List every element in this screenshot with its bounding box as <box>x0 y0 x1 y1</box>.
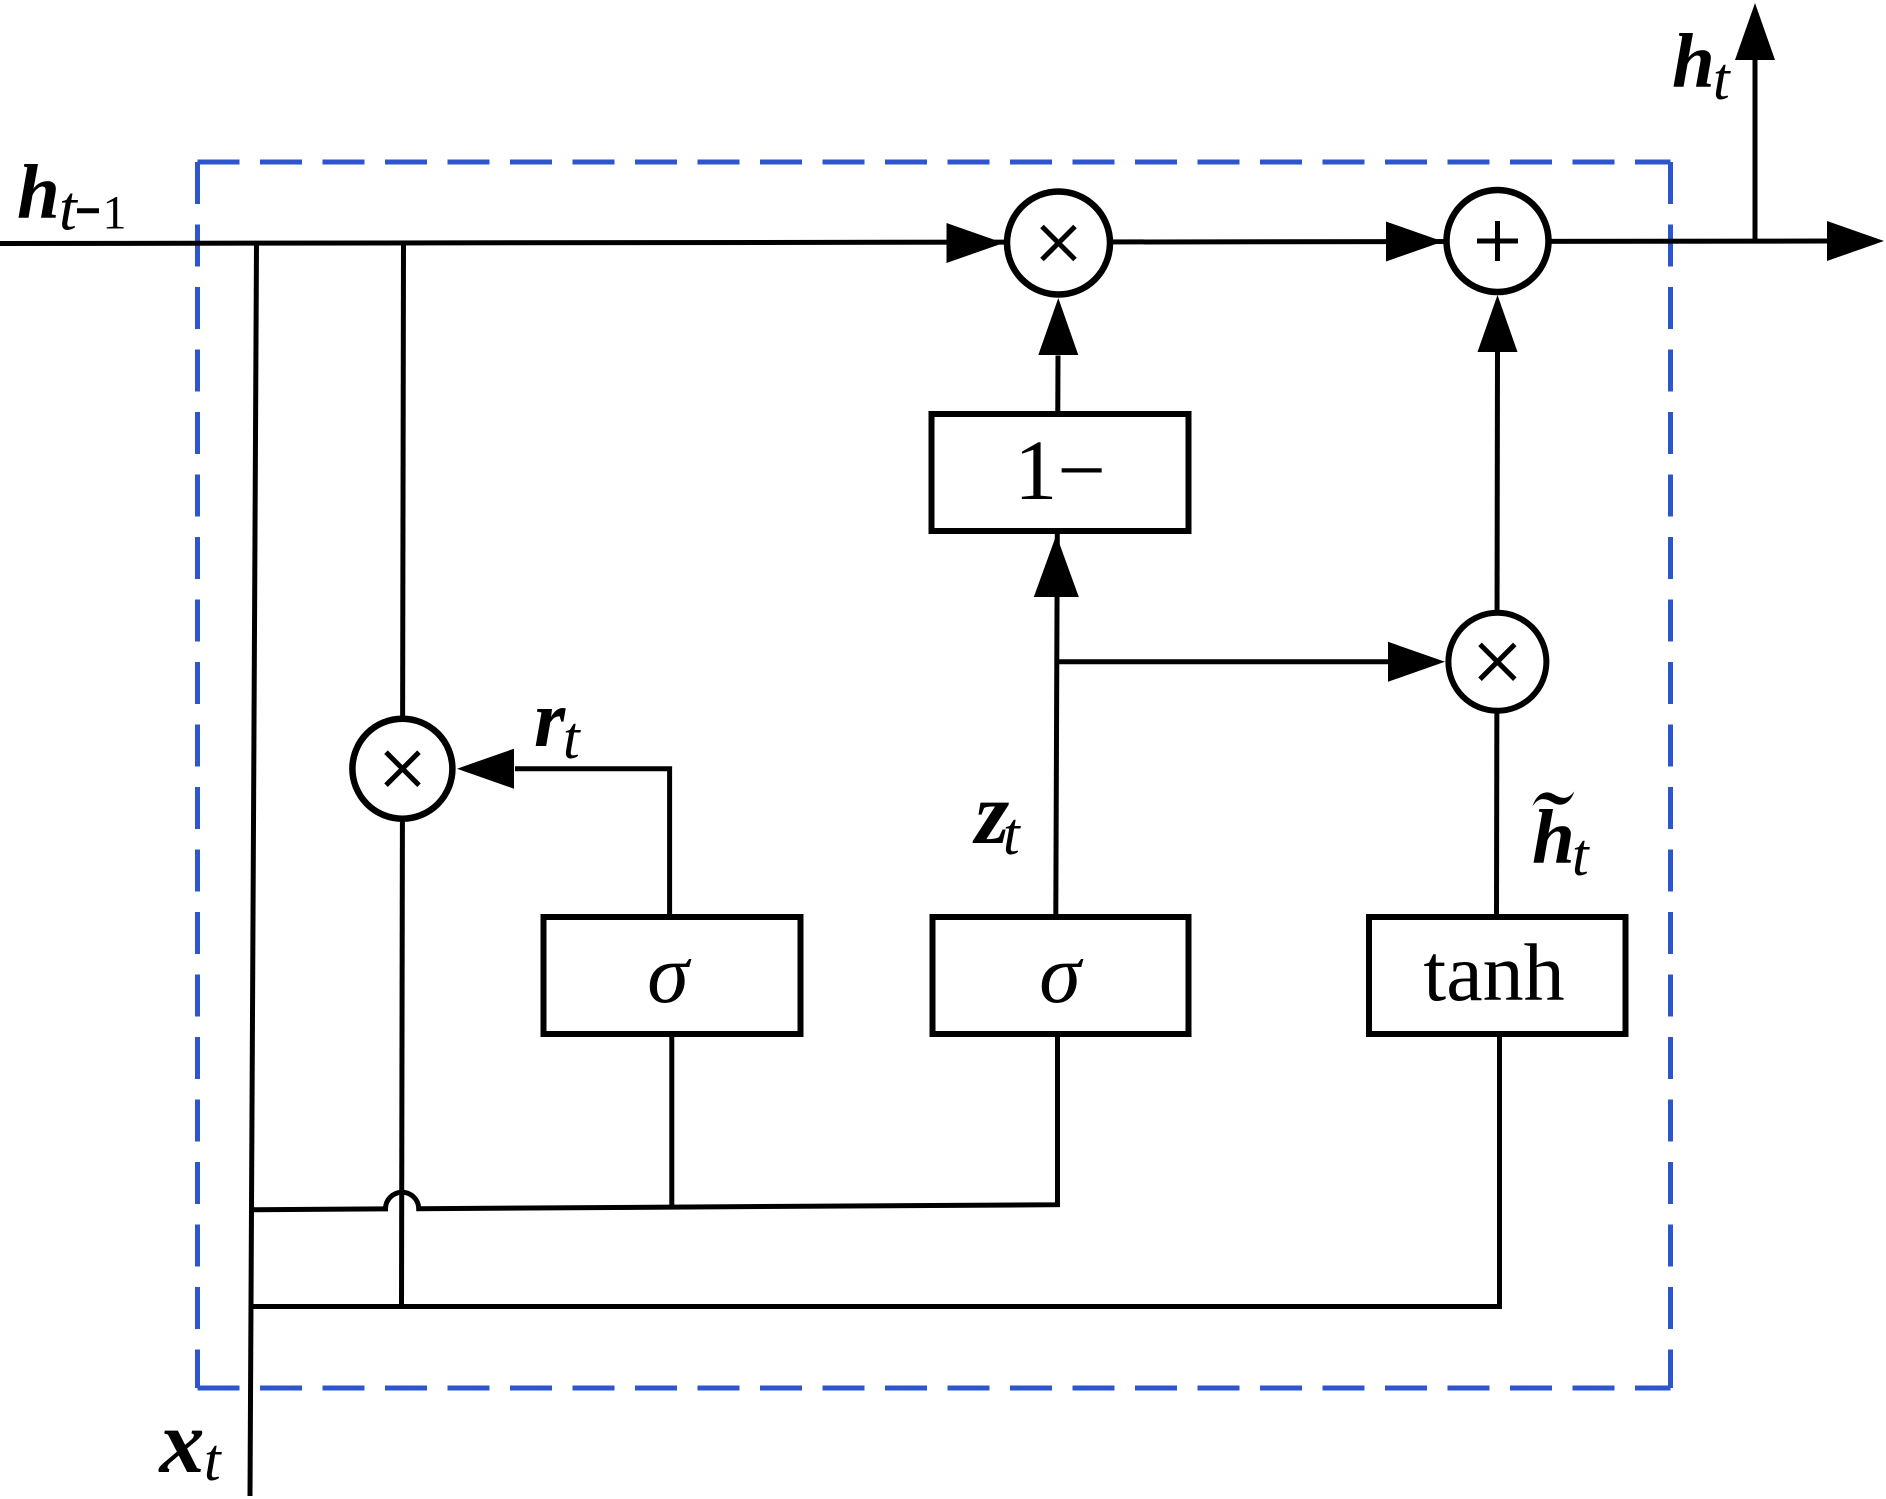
svg-text:r: r <box>534 676 566 764</box>
svg-text:h: h <box>17 149 60 235</box>
arrowhead into adder A1 from left <box>1386 222 1443 262</box>
box U1 sigma (reset gate) <box>544 917 801 1034</box>
svg-text:x: x <box>158 1393 205 1492</box>
dashed GRU cell boundary: top edge <box>198 160 1671 165</box>
svg-text:t: t <box>1003 801 1021 867</box>
svg-text:t: t <box>563 705 581 771</box>
arrowhead into multiplier M1 from left <box>947 223 1004 263</box>
adder A1 circle <box>1447 190 1549 292</box>
wire second vertical branch through reset multiplier <box>402 244 404 1307</box>
adder A1 plus glyph <box>1477 221 1518 261</box>
wire z_t vertical from U2 through 1-minus box to multiplier M1 <box>1056 356 1058 915</box>
wire tanh output through multiplier M4 to adder A1 <box>1497 352 1498 914</box>
arrowhead from 1-minus into multiplier M1 <box>1038 298 1078 355</box>
svg-text:t: t <box>1572 822 1590 888</box>
wire z_t branch to multiplier M4 <box>1056 659 1390 664</box>
arrowhead h_t output upward <box>1735 3 1775 60</box>
svg-text:t: t <box>59 173 79 244</box>
box U2 sigma (update gate) <box>933 917 1189 1034</box>
svg-text:h: h <box>1672 18 1715 104</box>
wire bottom bus A with crossover bump to update gate U2 input <box>252 1034 1058 1210</box>
arrowhead from multiplier M4 into adder A1 <box>1478 295 1518 352</box>
arrowhead z_t into 1-minus box <box>1034 535 1079 597</box>
arrowhead z_t branch into multiplier M4 <box>1388 642 1445 682</box>
svg-text:1−: 1− <box>1014 422 1106 518</box>
multiplier M4 circle (candidate gate) <box>1448 613 1546 711</box>
svg-text:t: t <box>204 1427 222 1493</box>
dashed GRU cell boundary: left edge <box>195 162 200 1388</box>
box U4 tanh <box>1369 917 1626 1034</box>
wire h_t output vertical <box>1753 58 1758 242</box>
reset multiplier M3 cross glyph <box>386 752 419 785</box>
dashed GRU cell boundary: bottom edge <box>198 1386 1671 1391</box>
wire h_{t-1} main horizontal line <box>0 241 1830 244</box>
svg-text:σ: σ <box>647 928 692 1021</box>
box U3 "1-" <box>932 414 1189 531</box>
dashed GRU cell boundary: right edge <box>1668 162 1673 1388</box>
reset multiplier M3 circle <box>352 719 452 819</box>
multiplier M1 cross glyph <box>1042 227 1075 260</box>
svg-text:tanh: tanh <box>1423 927 1564 1018</box>
wire sigma U1 input drop to bottom bus A <box>669 1034 674 1209</box>
wire left vertical branch (h_{t-1}/x_t bus) <box>250 244 257 1497</box>
svg-text:h: h <box>1532 794 1575 880</box>
multiplier M1 circle (top) <box>1007 192 1110 295</box>
arrowhead r_t into reset multiplier M3 <box>457 749 514 789</box>
svg-text:1: 1 <box>103 187 127 240</box>
wire r_t elbow from sigma U1 to reset multiplier M3 <box>515 769 670 916</box>
arrowhead h_t output to right edge <box>1827 221 1884 261</box>
label h-tilde_t <box>1533 792 1575 807</box>
wire bottom bus B to tanh input <box>252 1034 1500 1307</box>
svg-text:t: t <box>1713 46 1731 112</box>
svg-text:σ: σ <box>1039 928 1084 1021</box>
multiplier M4 cross glyph <box>1480 644 1515 679</box>
